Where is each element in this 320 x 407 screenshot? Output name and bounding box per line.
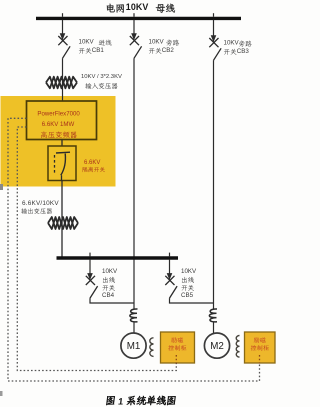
svg-text:10KV: 10KV bbox=[149, 39, 165, 46]
svg-text:CB5: CB5 bbox=[181, 292, 194, 299]
wire CB4 jog to M1 column bbox=[90, 298, 134, 303]
wire CB3 bypass column down to M2 bbox=[213, 60, 215, 309]
breaker CB4 (10KV outgoing) bbox=[89, 260, 91, 277]
svg-text:6.6KV 1MW: 6.6KV 1MW bbox=[42, 121, 75, 128]
svg-text:CB3: CB3 bbox=[237, 48, 250, 55]
svg-text:10KV: 10KV bbox=[181, 268, 197, 275]
motor M1 bbox=[121, 333, 146, 358]
isolation switch box bbox=[48, 146, 76, 181]
node ticks on busbar1 bbox=[62, 13, 64, 17]
svg-text:10KV: 10KV bbox=[79, 39, 95, 46]
reactor L1 bbox=[130, 309, 138, 322]
svg-text:M1: M1 bbox=[127, 341, 141, 352]
wire CB1 to input transformer bbox=[62, 58, 64, 103]
dashed drop from box1 bbox=[175, 355, 177, 364]
svg-text:6.6KV: 6.6KV bbox=[84, 160, 100, 166]
wire CB5 jog to M2 column bbox=[170, 298, 214, 303]
CB1 label bbox=[99, 40, 112, 46]
artifact dot bbox=[0, 184, 3, 190]
svg-text:6.6KV/10KV: 6.6KV/10KV bbox=[22, 200, 59, 207]
excitation winding of M2 bbox=[236, 336, 239, 358]
svg-text:CB1: CB1 bbox=[92, 47, 105, 54]
wire CB2 bypass column down to busbar2 and M1 bbox=[133, 58, 135, 309]
excitation controller box 2 bbox=[245, 332, 276, 363]
busbar: grid 10KV bus bbox=[36, 17, 241, 20]
busbar 2 bbox=[57, 256, 179, 259]
excitation controller box 1 bbox=[161, 332, 195, 363]
svg-text:10KV: 10KV bbox=[126, 2, 149, 12]
svg-text:PowerFlex7000: PowerFlex7000 bbox=[37, 111, 80, 118]
output transformer 6.6KV/10KV bbox=[48, 217, 78, 229]
breaker CB1 (10KV incoming) bbox=[62, 20, 64, 37]
wire isolation switch to busbar2 bbox=[61, 181, 63, 259]
control cable outer (VFD to excitation controller 2) bbox=[8, 118, 260, 381]
breaker CB5 (10KV outgoing 2) bbox=[169, 260, 171, 277]
isolation switch symbol bbox=[56, 151, 70, 154]
wire VFD to isolation switch bbox=[61, 140, 63, 154]
breaker CB2 (10KV bypass) bbox=[133, 20, 135, 37]
busbar1 title label bbox=[107, 4, 124, 13]
reactor L2 bbox=[209, 309, 217, 322]
control cable inner (VFD to excitation controller 1) bbox=[17, 127, 176, 371]
motor M2 bbox=[204, 333, 229, 358]
svg-text:CB2: CB2 bbox=[162, 47, 175, 54]
input transformer 10KV/3*2.3KV bbox=[46, 77, 77, 89]
excitation winding of M1 bbox=[150, 338, 154, 357]
node ticks on busbar2 bbox=[89, 253, 91, 257]
svg-text:10KV: 10KV bbox=[224, 40, 240, 47]
VFD PowerFlex7000 box U1 bbox=[27, 101, 97, 140]
svg-text:10KV: 10KV bbox=[102, 268, 118, 275]
svg-text:M2: M2 bbox=[210, 341, 224, 352]
VFD yellow highlight block bbox=[1, 96, 116, 187]
breaker CB3 (10KV bypass 2) bbox=[213, 20, 215, 39]
caption bbox=[106, 396, 176, 407]
svg-text:CB4: CB4 bbox=[102, 292, 115, 299]
svg-text:10KV / 3*2.3KV: 10KV / 3*2.3KV bbox=[81, 74, 122, 80]
